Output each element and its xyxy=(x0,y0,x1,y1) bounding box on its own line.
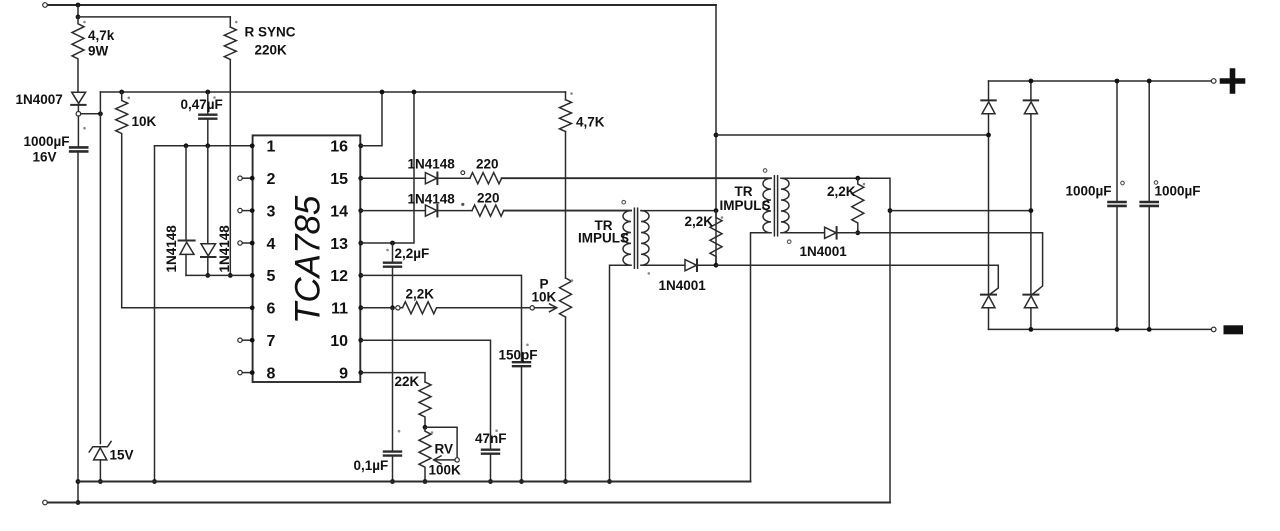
svg-text:1N4148: 1N4148 xyxy=(164,225,179,273)
wire 220 to TR1 primary top xyxy=(504,210,631,212)
wire D4 to R 220 xyxy=(437,177,470,179)
junction ground x425 xyxy=(423,479,428,484)
svg-text:150pF: 150pF xyxy=(499,348,538,363)
junction 2,2K right bottom xyxy=(855,230,860,235)
wiper arrow of RV xyxy=(434,459,455,461)
junction pin1 row x186 xyxy=(184,143,189,148)
svg-text:47nF: 47nF xyxy=(475,431,507,446)
wire zener to ground xyxy=(99,460,101,482)
wire DC minus bus xyxy=(989,328,1212,330)
svg-text:R SYNC: R SYNC xyxy=(245,25,296,40)
junction VCC x382 xyxy=(380,90,385,95)
wire 4,7K to P xyxy=(565,132,567,279)
wire TR2 secondary bottom to diode xyxy=(781,232,825,234)
svg-text:2: 2 xyxy=(267,171,276,188)
wire TR2 secondary top xyxy=(781,178,890,502)
wire pin1 row (ground of IC) xyxy=(155,145,253,147)
wire 220 to TR2 primary top xyxy=(502,177,771,179)
svg-text:0,1µF: 0,1µF xyxy=(354,458,389,473)
svg-text:7: 7 xyxy=(267,333,276,350)
junction ground x154.5 xyxy=(152,479,157,484)
terminal mark P xyxy=(571,279,574,282)
junction ground x490.5 xyxy=(488,479,493,484)
svg-text:RV: RV xyxy=(435,442,454,457)
resistor R5 2,2K (pin11) xyxy=(400,302,438,314)
wire stub x78 top xyxy=(77,5,79,17)
capacitor C1 1000uF 16V xyxy=(70,146,87,149)
pin 7 stub xyxy=(238,338,242,342)
svg-text:1N4148: 1N4148 xyxy=(408,157,456,172)
wire top AC bus xyxy=(47,4,716,6)
wire pin10 to 47nF xyxy=(360,340,490,449)
svg-text:1N4148: 1N4148 xyxy=(217,225,232,273)
wire D1 to x100 xyxy=(81,113,101,115)
terminal mark TR1 polarity xyxy=(622,200,626,204)
terminal mark 0,47uF xyxy=(213,96,216,99)
wire DC plus bus xyxy=(989,80,1212,82)
junction x100 y113.8 xyxy=(98,111,103,116)
potentiometer P 10K xyxy=(560,278,572,317)
svg-text:6: 6 xyxy=(267,301,276,318)
svg-text:14: 14 xyxy=(330,203,348,220)
node open circle P wiper xyxy=(530,306,534,310)
svg-text:1: 1 xyxy=(267,139,276,156)
junction bottom bus x78 xyxy=(76,500,81,505)
svg-text:10: 10 xyxy=(330,333,348,350)
terminal mark 1000uF xyxy=(83,127,86,130)
junction pin5 row x207.8 xyxy=(205,273,210,278)
pin 3 stub xyxy=(238,208,242,212)
svg-text:1N4148: 1N4148 xyxy=(408,192,456,207)
wire pin9 row xyxy=(360,373,425,382)
svg-text:TR: TR xyxy=(735,184,753,199)
terminal mark 2,2uF xyxy=(386,249,389,252)
svg-text:3: 3 xyxy=(267,203,276,220)
junction x890 y210.6 xyxy=(888,208,893,213)
wire gate SCR1 xyxy=(716,265,998,295)
wire P bottom to ground xyxy=(565,317,567,482)
diode D4 1N4148 xyxy=(425,173,437,184)
junction minus bus x1030.9 xyxy=(1029,327,1034,332)
junction pin11 row x392.5 xyxy=(390,305,395,310)
pin 10 dot xyxy=(358,338,363,343)
diode D6 1N4001 xyxy=(685,260,697,271)
svg-text:4,7k: 4,7k xyxy=(88,28,115,43)
wire VCC to 4,7K xyxy=(565,92,567,100)
terminal mark RV xyxy=(431,431,434,434)
terminal mark 0,1uF xyxy=(398,430,401,433)
svg-text:4,7K: 4,7K xyxy=(576,115,605,130)
pin 5 dot xyxy=(250,273,255,278)
svg-text:16V: 16V xyxy=(33,150,57,165)
wire TR1 secondary top xyxy=(641,210,716,212)
svg-text:220K: 220K xyxy=(255,43,288,58)
svg-text:100K: 100K xyxy=(429,463,462,478)
svg-text:1000µF: 1000µF xyxy=(1066,184,1112,199)
wire x716 to bridge left midpoint xyxy=(716,134,989,136)
diode Z1 zener 15V xyxy=(89,441,111,452)
terminal mark 47nF xyxy=(495,429,498,432)
svg-text:IMPULS: IMPULS xyxy=(578,231,629,246)
pin 2 stub xyxy=(238,176,242,180)
wire D6 to junction xyxy=(697,264,716,266)
terminal mark C8 xyxy=(1121,181,1125,185)
transformer TR2 secondary coil xyxy=(781,178,789,233)
capacitor C3 2,2uF xyxy=(392,243,394,262)
transformer TR2 IMPULS primary coil xyxy=(763,178,771,233)
svg-text:1000µF: 1000µF xyxy=(1155,184,1201,199)
svg-text:2,2K: 2,2K xyxy=(685,214,714,229)
junction x716 y210.6 xyxy=(714,208,719,213)
pin 8 stub xyxy=(238,370,242,374)
svg-text:4: 4 xyxy=(267,236,276,253)
wire pin12 to 150pF xyxy=(360,275,521,361)
bottom AC bus xyxy=(47,502,890,504)
wire TR2 primary bottom to ground bus xyxy=(751,233,772,482)
terminal mark R SYNC xyxy=(235,21,238,24)
svg-text:1000µF: 1000µF xyxy=(24,134,70,149)
resistor R SYNC 220K xyxy=(224,27,236,60)
wire VCC rail y92 xyxy=(100,91,565,93)
junction 22K/RV node xyxy=(423,425,428,430)
node junction circle below D1 xyxy=(76,112,81,117)
terminal mark 150pF xyxy=(526,344,529,347)
junction VCC x414 xyxy=(412,90,417,95)
resistor R1 4,7k 9W xyxy=(72,17,84,92)
terminal mark 2,2K right xyxy=(863,183,866,186)
junction bridge left midpoint xyxy=(986,133,991,138)
junction pin13 row x392.5 xyxy=(390,241,395,246)
pin 14 dot xyxy=(358,208,363,213)
pin 4 stub xyxy=(238,241,242,245)
terminal mark 4,7K xyxy=(570,92,573,95)
capacitor C8 1000uF (left) xyxy=(1116,81,1118,202)
pin 9 dot xyxy=(358,370,363,375)
svg-text:2,2K: 2,2K xyxy=(406,287,435,302)
diode D7 1N4001 xyxy=(825,227,837,238)
capacitor C2 0,47uF xyxy=(207,92,209,114)
resistor R3 220 xyxy=(470,173,502,184)
capacitor C7 0,1uF xyxy=(384,450,401,452)
pin 15 dot xyxy=(358,176,363,181)
terminal mark 10K xyxy=(128,97,131,100)
transformer TR1 secondary coil xyxy=(641,211,649,266)
svg-text:220: 220 xyxy=(476,157,499,172)
resistor R7 4,7K xyxy=(560,100,572,132)
svg-text:TCA785: TCA785 xyxy=(289,195,328,324)
wire to R SYNC xyxy=(78,16,230,18)
svg-text:15V: 15V xyxy=(110,448,134,463)
wire bridge left leg xyxy=(988,81,990,329)
resistor R8 2,2K xyxy=(710,211,722,266)
pin 6 dot xyxy=(250,305,255,310)
node dot pin14 row xyxy=(461,203,464,206)
wire 2,2K to P wiper xyxy=(439,307,531,309)
junction ground x100 xyxy=(98,479,103,484)
pin 1 dot xyxy=(250,143,255,148)
svg-text:22K: 22K xyxy=(395,374,420,389)
junction x716 y135 xyxy=(714,133,719,138)
capacitor C9 1000uF (right) xyxy=(1148,81,1150,202)
junction ground bus x78 xyxy=(76,479,81,484)
diode D8 (bridge left top) xyxy=(981,99,995,101)
wire D5 to R 220 xyxy=(437,210,472,212)
node AC input bottom (open terminal) xyxy=(43,500,48,505)
op-amp U1 TCA785 box xyxy=(253,135,361,382)
junction 10K top xyxy=(119,90,124,95)
junction pin1 row x207.8 xyxy=(205,143,210,148)
svg-text:2,2K: 2,2K xyxy=(827,184,856,199)
junction 0,47uF top xyxy=(205,90,210,95)
node plus terminal (open) xyxy=(1211,79,1216,84)
wire TR1 primary bottom to ground xyxy=(610,265,632,481)
capacitor C5 47nF xyxy=(482,449,499,451)
svg-text:IMPULS: IMPULS xyxy=(720,198,771,213)
diode D9 (bridge right top) xyxy=(1024,99,1038,101)
transformer TR1 core xyxy=(633,208,635,268)
terminal mark 4,7k xyxy=(83,21,86,24)
svg-text:8: 8 xyxy=(267,365,276,382)
node minus terminal (open) xyxy=(1211,327,1216,332)
svg-text:10K: 10K xyxy=(132,114,157,129)
thyristor SCR1 (bridge left bottom) xyxy=(981,294,996,296)
wire pin5 row xyxy=(186,274,253,276)
transformer TR1 IMPULS primary coil xyxy=(623,211,631,266)
wire gate SCR2 xyxy=(837,233,1043,295)
terminal mark TR2 polarity xyxy=(763,169,767,173)
svg-text:13: 13 xyxy=(330,236,348,253)
junction x716 y265.2 xyxy=(714,263,719,268)
transformer TR2 core xyxy=(773,176,775,236)
resistor R6 22K xyxy=(419,382,431,427)
wire pin6 row xyxy=(122,307,253,309)
node open circle pin15 row xyxy=(461,171,465,175)
svg-text:1N4001: 1N4001 xyxy=(800,244,848,259)
wire C1 bottom to ground bus xyxy=(77,151,79,502)
junction bridge right midpoint xyxy=(1029,208,1034,213)
pin 12 dot xyxy=(358,273,363,278)
wire top bus corner down x716 xyxy=(715,5,717,265)
terminal mark TR1 secondary xyxy=(648,272,651,275)
node open circle left of R 2,2K xyxy=(396,306,400,310)
diode D3 1N4148 (cathode down) xyxy=(207,146,209,244)
wire pin11 row xyxy=(360,307,392,309)
wire RV wiper loop xyxy=(425,427,457,457)
svg-text:0,47µF: 0,47µF xyxy=(181,97,223,112)
svg-text:10K: 10K xyxy=(532,290,557,305)
pin 11 dot xyxy=(358,305,363,310)
wire x100 column xyxy=(99,92,101,444)
diode D1 1N4007 xyxy=(72,92,86,103)
wire pin15 row to diode xyxy=(360,177,425,179)
pin 13 dot xyxy=(358,241,363,246)
ground bus xyxy=(78,481,751,483)
wire cap C1 top xyxy=(77,116,79,147)
svg-text:9W: 9W xyxy=(88,44,109,59)
resistor R4 220 xyxy=(472,205,504,216)
junction plus bus x1030.9 xyxy=(1029,79,1034,84)
svg-text:12: 12 xyxy=(330,268,348,285)
capacitor C6 150pF xyxy=(513,361,530,363)
node open circle RV wiper xyxy=(455,458,459,462)
plus symbol xyxy=(1223,71,1243,91)
resistor R2 10K xyxy=(116,92,128,308)
pin 16 dot xyxy=(358,143,363,148)
wire pin13 to VCC rail xyxy=(360,92,414,243)
junction ground x609.5 xyxy=(607,479,612,484)
junction ground x565.5 xyxy=(563,479,568,484)
wire bridge right leg xyxy=(1030,81,1032,329)
junction ground x521.5 xyxy=(519,479,524,484)
diode D2 1N4148 (cathode up) xyxy=(185,146,187,241)
diode D5 1N4148 xyxy=(425,205,437,216)
svg-text:1N4001: 1N4001 xyxy=(659,278,707,293)
terminal mark 2,2K mid xyxy=(721,216,724,219)
svg-text:16: 16 xyxy=(330,139,348,156)
terminal mark C9 xyxy=(1154,181,1158,185)
wire pin16 to VCC rail xyxy=(360,92,382,146)
junction 2,2K right top xyxy=(855,176,860,181)
wire TR1 secondary bottom to diode xyxy=(641,264,685,266)
svg-text:1N4007: 1N4007 xyxy=(16,92,63,107)
thyristor SCR2 (bridge right bottom) xyxy=(1023,294,1038,296)
wiper arrow of P xyxy=(534,307,556,309)
svg-text:220: 220 xyxy=(477,191,500,206)
svg-text:11: 11 xyxy=(331,301,348,318)
wire x392.5 down to 0,1uF xyxy=(392,308,394,451)
svg-text:9: 9 xyxy=(339,365,348,382)
junction R SYNC at pin5 wire xyxy=(228,273,233,278)
junction x78 y17 xyxy=(76,15,81,20)
svg-text:2,2µF: 2,2µF xyxy=(395,246,430,261)
terminal mark TR2 secondary xyxy=(787,240,791,244)
wire x890 to bridge right midpoint xyxy=(890,210,1031,212)
trimmer RV 100K xyxy=(419,427,431,481)
junction top bus at x78 xyxy=(76,3,81,8)
svg-text:15: 15 xyxy=(330,171,348,188)
minus symbol xyxy=(1224,325,1244,334)
junction ground x392.5 xyxy=(390,479,395,484)
wire x154.5 down to ground xyxy=(154,146,156,482)
node AC input top (open terminal) xyxy=(43,3,48,8)
wire pin14 row to diode xyxy=(360,210,425,212)
resistor R9 2,2K xyxy=(852,178,864,233)
svg-text:5: 5 xyxy=(267,268,276,285)
wire R SYNC bottom to pin5 row xyxy=(229,60,231,276)
